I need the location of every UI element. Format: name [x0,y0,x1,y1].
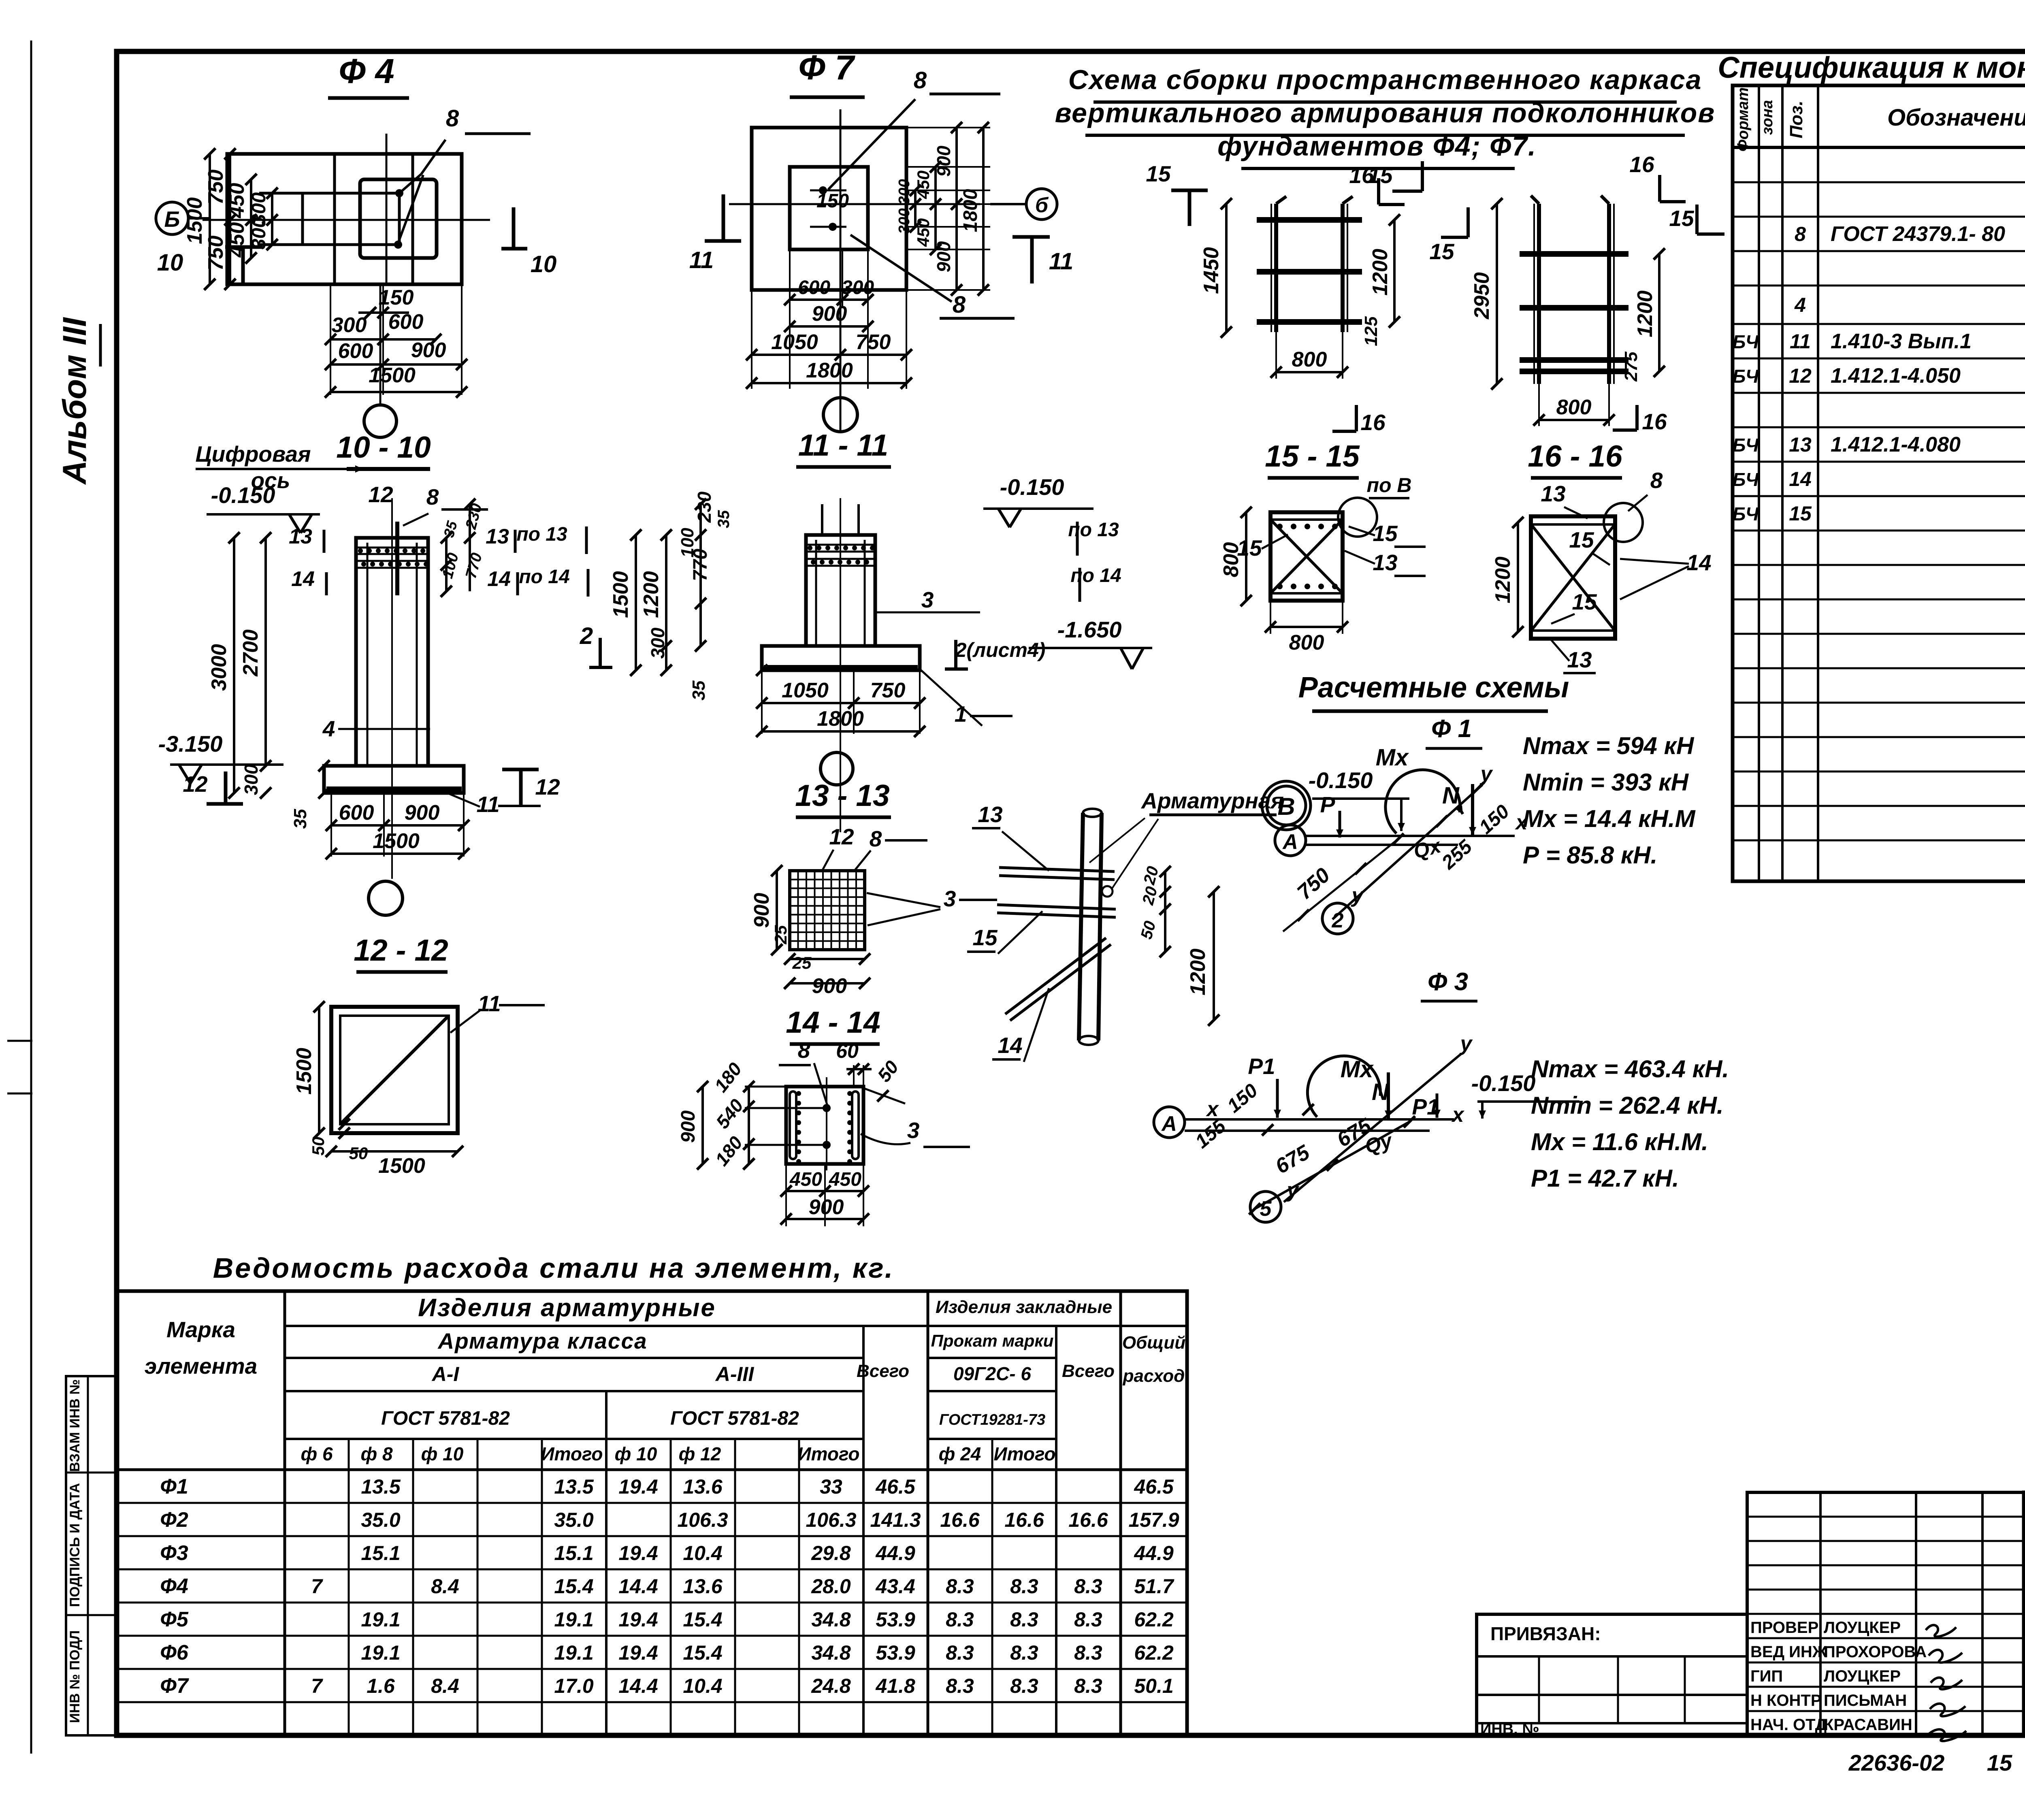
svg-text:14: 14 [1686,550,1711,575]
svg-text:16.6: 16.6 [1068,1509,1108,1531]
svg-text:3: 3 [921,587,934,612]
svg-text:Ведомость расхода стали на эле: Ведомость расхода стали на элемент, кг. [213,1252,895,1284]
svg-text:Альбом III: Альбом III [56,317,93,485]
svg-text:46.5: 46.5 [1134,1475,1174,1498]
svg-text:300: 300 [248,217,270,249]
svg-text:ИНВ. №: ИНВ. № [1480,1721,1539,1738]
svg-text:25: 25 [771,925,790,944]
svg-text:Прокат марки: Прокат марки [931,1331,1054,1350]
svg-text:ПОДПИСЬ И ДАТА: ПОДПИСЬ И ДАТА [67,1483,83,1607]
svg-text:19.4: 19.4 [618,1641,658,1664]
svg-text:13.5: 13.5 [361,1475,401,1498]
svg-text:2(лист4): 2(лист4) [955,639,1046,661]
svg-text:8.4: 8.4 [431,1675,459,1697]
svg-text:8.3: 8.3 [1010,1575,1038,1598]
svg-text:14: 14 [998,1033,1022,1058]
svg-text:по В: по В [1366,474,1411,497]
svg-text:900: 900 [812,302,847,326]
svg-text:ЛОУЦКЕР: ЛОУЦКЕР [1824,1667,1901,1685]
svg-text:1200: 1200 [1633,290,1657,337]
svg-text:ГОСТ 24379.1- 80: ГОСТ 24379.1- 80 [1831,222,2005,246]
svg-text:ф 10: ф 10 [421,1443,464,1464]
svg-text:12: 12 [1789,364,1812,387]
svg-text:275: 275 [1621,352,1641,382]
svg-text:800: 800 [1292,348,1327,371]
svg-text:2: 2 [580,623,593,649]
svg-text:1050: 1050 [771,330,818,354]
svg-text:900: 900 [933,145,954,177]
svg-text:50: 50 [309,1137,328,1156]
svg-text:7: 7 [311,1675,323,1697]
svg-text:Расчетные схемы: Расчетные схемы [1298,671,1569,704]
svg-text:Р1: Р1 [1248,1054,1275,1079]
svg-text:16 - 16: 16 - 16 [1528,439,1623,473]
svg-text:16: 16 [1360,410,1386,435]
svg-text:35.0: 35.0 [554,1509,594,1531]
svg-text:300: 300 [241,764,262,795]
svg-text:15: 15 [1373,521,1398,546]
svg-text:800: 800 [1556,396,1592,419]
svg-text:Р1 = 42.7 кН.: Р1 = 42.7 кН. [1531,1165,1679,1192]
svg-text:11: 11 [1790,330,1811,353]
svg-text:1.410-3 Вып.1: 1.410-3 Вып.1 [1831,330,1972,353]
svg-text:Всего: Всего [857,1361,909,1381]
svg-text:1800: 1800 [806,359,853,382]
svg-text:А: А [1161,1112,1177,1136]
svg-text:ГОСТ 5781-82: ГОСТ 5781-82 [381,1408,510,1429]
svg-text:19.1: 19.1 [554,1608,593,1631]
svg-text:Общий: Общий [1122,1333,1185,1353]
svg-text:Итого: Итого [541,1443,603,1464]
svg-text:БЧ: БЧ [1733,435,1759,456]
svg-text:8: 8 [426,484,439,509]
svg-text:10 - 10: 10 - 10 [336,430,431,464]
svg-text:ПРОИЗВОДСТВЕННО-ВСПОМОГАТЕЛЬНО: ПРОИЗВОДСТВЕННО-ВСПОМОГАТЕЛЬНОЕ [2023,1665,2025,1681]
svg-text:16.6: 16.6 [1004,1509,1044,1531]
svg-text:300: 300 [896,179,913,205]
svg-text:Поз.: Поз. [1786,100,1806,138]
svg-text:10: 10 [157,249,183,276]
svg-text:вертикального армирования подк: вертикального армирования подколонников [1055,98,1716,128]
svg-text:Б: Б [164,207,180,232]
svg-text:б: б [1035,194,1049,217]
svg-text:Р: Р [1320,792,1335,817]
svg-text:Ф 1: Ф 1 [1431,715,1472,743]
svg-text:Всего: Всего [1062,1361,1115,1381]
svg-text:3000: 3000 [207,644,231,691]
svg-text:Ф1: Ф1 [160,1475,188,1498]
svg-text:230: 230 [694,491,715,523]
svg-text:фундаментов Ф4; Ф7.: фундаментов Ф4; Ф7. [1217,131,1537,162]
svg-text:-3.150: -3.150 [158,731,223,757]
svg-text:19.1: 19.1 [361,1608,400,1631]
svg-text:8: 8 [1795,223,1806,245]
svg-text:Изделия арматурные: Изделия арматурные [418,1294,716,1322]
svg-text:29.8: 29.8 [811,1542,851,1564]
svg-text:157.9: 157.9 [1128,1509,1179,1531]
svg-text:N: N [1372,1079,1389,1105]
svg-text:300: 300 [332,313,367,337]
svg-text:-0.150: -0.150 [1471,1070,1536,1096]
svg-text:800: 800 [1219,542,1243,578]
svg-text:Ф4: Ф4 [160,1575,188,1598]
svg-text:ГОСТ19281-73: ГОСТ19281-73 [939,1411,1045,1428]
svg-text:900: 900 [812,974,847,998]
svg-text:770: 770 [690,549,711,581]
svg-text:750: 750 [870,679,906,702]
svg-text:600: 600 [338,339,373,363]
svg-text:450: 450 [225,183,249,219]
svg-text:34.8: 34.8 [811,1608,851,1631]
svg-text:1800: 1800 [817,707,864,731]
svg-text:3: 3 [907,1118,920,1143]
svg-text:14.4: 14.4 [618,1575,658,1598]
svg-text:8.4: 8.4 [431,1575,459,1598]
svg-text:8.3: 8.3 [1074,1575,1102,1598]
svg-text:1200: 1200 [1368,249,1392,296]
svg-text:Формат: Формат [1735,87,1752,152]
svg-text:1.412.1-4.080: 1.412.1-4.080 [1831,433,1961,456]
svg-text:900: 900 [678,1110,699,1143]
svg-text:8.3: 8.3 [1074,1608,1102,1631]
svg-text:1050: 1050 [782,679,829,702]
svg-text:12: 12 [368,482,393,507]
svg-text:600: 600 [798,277,830,298]
svg-text:ПРИВЯЗАН:: ПРИВЯЗАН: [1490,1623,1601,1644]
svg-text:8.3: 8.3 [1010,1641,1038,1664]
svg-text:-0.150: -0.150 [1309,767,1373,793]
svg-text:Схема сборки пространственного: Схема сборки пространственного каркаса [1068,64,1702,95]
svg-text:ВЕД ИНЖ: ВЕД ИНЖ [1750,1643,1827,1661]
svg-text:300: 300 [896,208,913,234]
svg-text:8: 8 [914,67,927,94]
svg-text:11: 11 [689,247,714,273]
svg-text:Изделия закладные: Изделия закладные [936,1297,1112,1317]
svg-text:62.2: 62.2 [1134,1641,1174,1664]
svg-text:4: 4 [322,716,335,741]
svg-text:зона: зона [1759,100,1776,135]
svg-text:Nmin = 393 кН: Nmin = 393 кН [1523,769,1689,796]
svg-text:15.4: 15.4 [554,1575,593,1598]
svg-text:КРАСАВИН: КРАСАВИН [1824,1716,1912,1734]
svg-text:3: 3 [944,886,956,911]
svg-text:1200: 1200 [639,571,663,618]
svg-text:450: 450 [914,218,933,247]
svg-text:15: 15 [1146,161,1171,186]
svg-text:15.4: 15.4 [683,1641,722,1664]
svg-text:13.6: 13.6 [683,1575,723,1598]
svg-text:16: 16 [1642,409,1667,434]
svg-text:НАЧ. ОТД: НАЧ. ОТД [1750,1716,1827,1734]
svg-text:106.3: 106.3 [806,1509,856,1531]
svg-text:15.1: 15.1 [554,1542,593,1564]
svg-text:ПРОВЕР: ПРОВЕР [1750,1619,1818,1637]
svg-text:450: 450 [829,1169,861,1190]
svg-text:53.9: 53.9 [876,1641,915,1664]
svg-text:8: 8 [870,826,882,851]
svg-text:8.3: 8.3 [1010,1608,1038,1631]
svg-text:600: 600 [388,310,424,334]
svg-text:900: 900 [809,1196,844,1219]
svg-text:13.5: 13.5 [554,1475,594,1498]
svg-text:15: 15 [1789,502,1812,525]
svg-text:ф 6: ф 6 [301,1443,333,1464]
svg-text:2950: 2950 [1470,272,1494,320]
svg-text:15: 15 [972,925,998,950]
svg-text:300: 300 [647,627,668,659]
svg-text:у: у [1479,762,1494,786]
svg-text:Итого: Итого [798,1443,860,1464]
svg-text:Ф 3: Ф 3 [1428,968,1468,996]
svg-text:141.3: 141.3 [870,1509,921,1531]
svg-text:600: 600 [339,801,374,825]
svg-text:750: 750 [204,236,228,271]
svg-text:1500: 1500 [292,1048,316,1095]
svg-text:50.1: 50.1 [1134,1675,1173,1697]
svg-text:Ф 4: Ф 4 [339,52,394,91]
svg-text:БЧ: БЧ [1733,503,1759,524]
svg-text:Итого: Итого [994,1443,1056,1464]
svg-text:8.3: 8.3 [946,1608,974,1631]
svg-text:Ф6: Ф6 [160,1641,189,1664]
svg-text:19.1: 19.1 [554,1641,593,1664]
svg-text:1800: 1800 [960,189,981,232]
svg-text:13: 13 [1789,433,1812,456]
svg-text:13: 13 [978,802,1002,827]
svg-text:Mх: Mх [1376,744,1409,771]
svg-text:15.4: 15.4 [683,1608,722,1631]
svg-text:900: 900 [750,893,774,928]
svg-text:у: у [1351,884,1365,907]
svg-text:43.4: 43.4 [875,1575,915,1598]
svg-text:А-III: А-III [715,1363,755,1385]
svg-text:11: 11 [477,991,501,1016]
svg-text:11: 11 [476,792,499,817]
svg-text:ф 10: ф 10 [615,1443,657,1464]
svg-text:8.3: 8.3 [1010,1675,1038,1697]
svg-text:19.1: 19.1 [361,1641,400,1664]
svg-text:13: 13 [1567,647,1592,672]
svg-text:8.3: 8.3 [946,1575,974,1598]
svg-text:15: 15 [1572,589,1597,614]
svg-text:ф 12: ф 12 [679,1443,721,1464]
svg-text:60: 60 [836,1040,859,1062]
svg-text:13: 13 [1541,481,1565,506]
svg-text:7: 7 [311,1575,323,1598]
svg-text:ИНВ № ПОДЛ: ИНВ № ПОДЛ [67,1630,83,1723]
svg-text:14: 14 [1789,468,1812,490]
svg-text:по 14: по 14 [1070,565,1121,586]
svg-text:19.4: 19.4 [618,1608,658,1631]
svg-text:11: 11 [1049,248,1073,275]
svg-text:50: 50 [349,1144,368,1163]
svg-text:8: 8 [953,292,966,318]
svg-text:15 - 15: 15 - 15 [1265,439,1360,473]
svg-text:А-I: А-I [431,1363,460,1385]
svg-text:ф 24: ф 24 [939,1443,981,1464]
svg-text:БЧ: БЧ [1733,366,1759,387]
svg-text:300: 300 [842,277,874,298]
svg-text:А: А [1282,830,1298,854]
svg-text:8: 8 [798,1038,810,1063]
svg-text:22636-02: 22636-02 [1848,1750,1945,1775]
svg-text:1500: 1500 [609,571,633,618]
svg-text:8.3: 8.3 [946,1641,974,1664]
svg-text:расход: расход [1123,1366,1185,1386]
svg-text:14: 14 [291,567,315,591]
svg-text:1.412.1-4.050: 1.412.1-4.050 [1831,364,1961,388]
svg-text:Р1: Р1 [1412,1094,1439,1119]
svg-text:13: 13 [1373,550,1397,575]
svg-text:900: 900 [405,801,440,825]
svg-text:1200: 1200 [1186,948,1210,995]
svg-text:ЛОУЦКЕР: ЛОУЦКЕР [1824,1619,1901,1637]
svg-text:46.5: 46.5 [875,1475,916,1498]
svg-text:2700: 2700 [239,629,262,677]
svg-text:1.6: 1.6 [367,1675,395,1697]
svg-text:Обозначение: Обозначение [1887,104,2025,131]
svg-text:35: 35 [689,680,709,700]
svg-text:19.4: 19.4 [618,1542,658,1564]
svg-text:Арматура класса: Арматура класса [437,1328,647,1353]
svg-text:12: 12 [183,771,208,797]
svg-text:150: 150 [816,190,849,212]
svg-text:х: х [1451,1103,1465,1127]
svg-text:13.6: 13.6 [683,1475,723,1498]
svg-text:1500: 1500 [378,1154,425,1178]
svg-text:по 14: по 14 [519,566,569,588]
svg-text:44.9: 44.9 [875,1542,915,1564]
svg-text:Nmax = 463.4 кН.: Nmax = 463.4 кН. [1531,1055,1729,1083]
svg-text:4: 4 [1794,294,1806,316]
svg-text:-1.650: -1.650 [1057,617,1122,642]
svg-text:1500: 1500 [369,364,416,387]
svg-text:Nmin = 262.4 кН.: Nmin = 262.4 кН. [1531,1092,1724,1119]
svg-text:В: В [1277,793,1295,820]
svg-text:15: 15 [1669,206,1695,231]
svg-text:900: 900 [411,339,446,362]
svg-text:Н КОНТР: Н КОНТР [1750,1692,1822,1709]
svg-text:10.4: 10.4 [683,1542,722,1564]
svg-text:450: 450 [914,170,933,199]
svg-text:14: 14 [487,567,511,591]
svg-text:1200: 1200 [1491,556,1515,603]
svg-text:12 - 12: 12 - 12 [354,933,448,967]
svg-text:150: 150 [379,286,414,309]
svg-text:Ф3: Ф3 [160,1541,188,1565]
svg-text:Ф5: Ф5 [160,1608,189,1631]
svg-text:10: 10 [531,251,557,277]
svg-text:1500: 1500 [373,829,420,853]
svg-text:ПИСЬМАН: ПИСЬМАН [1824,1692,1907,1709]
svg-text:33: 33 [820,1475,842,1498]
svg-text:09Г2С- 6: 09Г2С- 6 [953,1363,1031,1384]
svg-text:1450: 1450 [1200,247,1223,294]
svg-text:ф 8: ф 8 [360,1443,392,1464]
svg-text:Nmax = 594 кН: Nmax = 594 кН [1523,732,1695,759]
svg-text:ПРОХОРОВА: ПРОХОРОВА [1824,1643,1927,1661]
svg-text:Mх = 11.6 кН.М.: Mх = 11.6 кН.М. [1531,1128,1708,1155]
svg-text:по 13: по 13 [1068,519,1119,541]
svg-text:БЧ: БЧ [1733,331,1759,352]
svg-text:у: у [1459,1032,1473,1055]
svg-text:900: 900 [933,241,954,272]
svg-text:15: 15 [1569,527,1594,552]
svg-text:Mх = 14.4 кН.М: Mх = 14.4 кН.М [1523,805,1696,832]
svg-text:14.4: 14.4 [618,1675,658,1697]
svg-text:24.8: 24.8 [811,1675,851,1697]
svg-text:ВЗАМ ИНВ №: ВЗАМ ИНВ № [67,1379,83,1472]
svg-text:8: 8 [1650,468,1663,493]
svg-text:15.1: 15.1 [361,1542,400,1564]
svg-text:51.7: 51.7 [1134,1575,1174,1598]
svg-text:Ф2: Ф2 [160,1508,188,1532]
svg-text:Mх: Mх [1341,1056,1374,1083]
svg-text:28.0: 28.0 [811,1575,851,1598]
svg-text:14 - 14: 14 - 14 [786,1005,880,1039]
svg-text:450: 450 [789,1169,822,1190]
svg-text:53.9: 53.9 [876,1608,915,1631]
svg-text:12: 12 [535,774,560,799]
svg-text:-0.150: -0.150 [211,482,275,508]
svg-text:15: 15 [1429,239,1455,264]
svg-text:34.8: 34.8 [811,1641,851,1664]
svg-text:800: 800 [1289,631,1324,654]
svg-text:106.3: 106.3 [677,1509,728,1531]
svg-text:-0.150: -0.150 [1000,474,1064,500]
svg-text:35: 35 [290,809,310,829]
svg-text:Спецификация к монолитным фунд: Спецификация к монолитным фундаментам. [1718,51,2025,84]
svg-text:11 - 11: 11 - 11 [798,428,888,462]
svg-text:13 - 13: 13 - 13 [795,778,890,812]
svg-text:750: 750 [204,170,228,205]
svg-text:по 13: по 13 [516,524,567,545]
svg-text:8.3: 8.3 [946,1675,974,1697]
svg-text:16: 16 [1349,163,1374,188]
svg-text:2: 2 [1332,909,1344,932]
svg-text:19.4: 19.4 [618,1475,658,1498]
svg-text:750: 750 [856,330,891,354]
svg-text:8: 8 [446,105,459,132]
svg-text:450: 450 [225,222,249,258]
svg-text:25: 25 [792,953,812,972]
svg-text:10.4: 10.4 [683,1675,722,1697]
svg-text:35.0: 35.0 [361,1509,401,1531]
svg-text:Р = 85.8 кН.: Р = 85.8 кН. [1523,842,1657,869]
svg-text:125: 125 [1361,316,1381,346]
svg-text:13: 13 [289,525,312,548]
svg-text:Ф7: Ф7 [160,1674,189,1698]
svg-text:35: 35 [715,510,733,528]
svg-text:ГИП: ГИП [1750,1667,1783,1685]
svg-text:N: N [1442,782,1460,809]
svg-text:Ф 7: Ф 7 [798,49,855,87]
svg-text:62.2: 62.2 [1134,1608,1174,1631]
svg-text:41.8: 41.8 [875,1675,915,1697]
svg-text:17.0: 17.0 [554,1675,594,1697]
svg-text:элемента: элемента [145,1353,257,1379]
svg-text:8.3: 8.3 [1074,1675,1102,1697]
svg-text:ГОСТ 5781-82: ГОСТ 5781-82 [670,1408,799,1429]
svg-text:13: 13 [486,525,509,548]
svg-text:БЧ: БЧ [1733,469,1759,490]
svg-text:Цифровая: Цифровая [195,441,311,467]
svg-text:16: 16 [1629,152,1654,177]
svg-text:15: 15 [1987,1750,2012,1775]
svg-text:12: 12 [829,824,854,849]
svg-text:1500: 1500 [183,197,207,244]
svg-text:44.9: 44.9 [1134,1542,1174,1564]
